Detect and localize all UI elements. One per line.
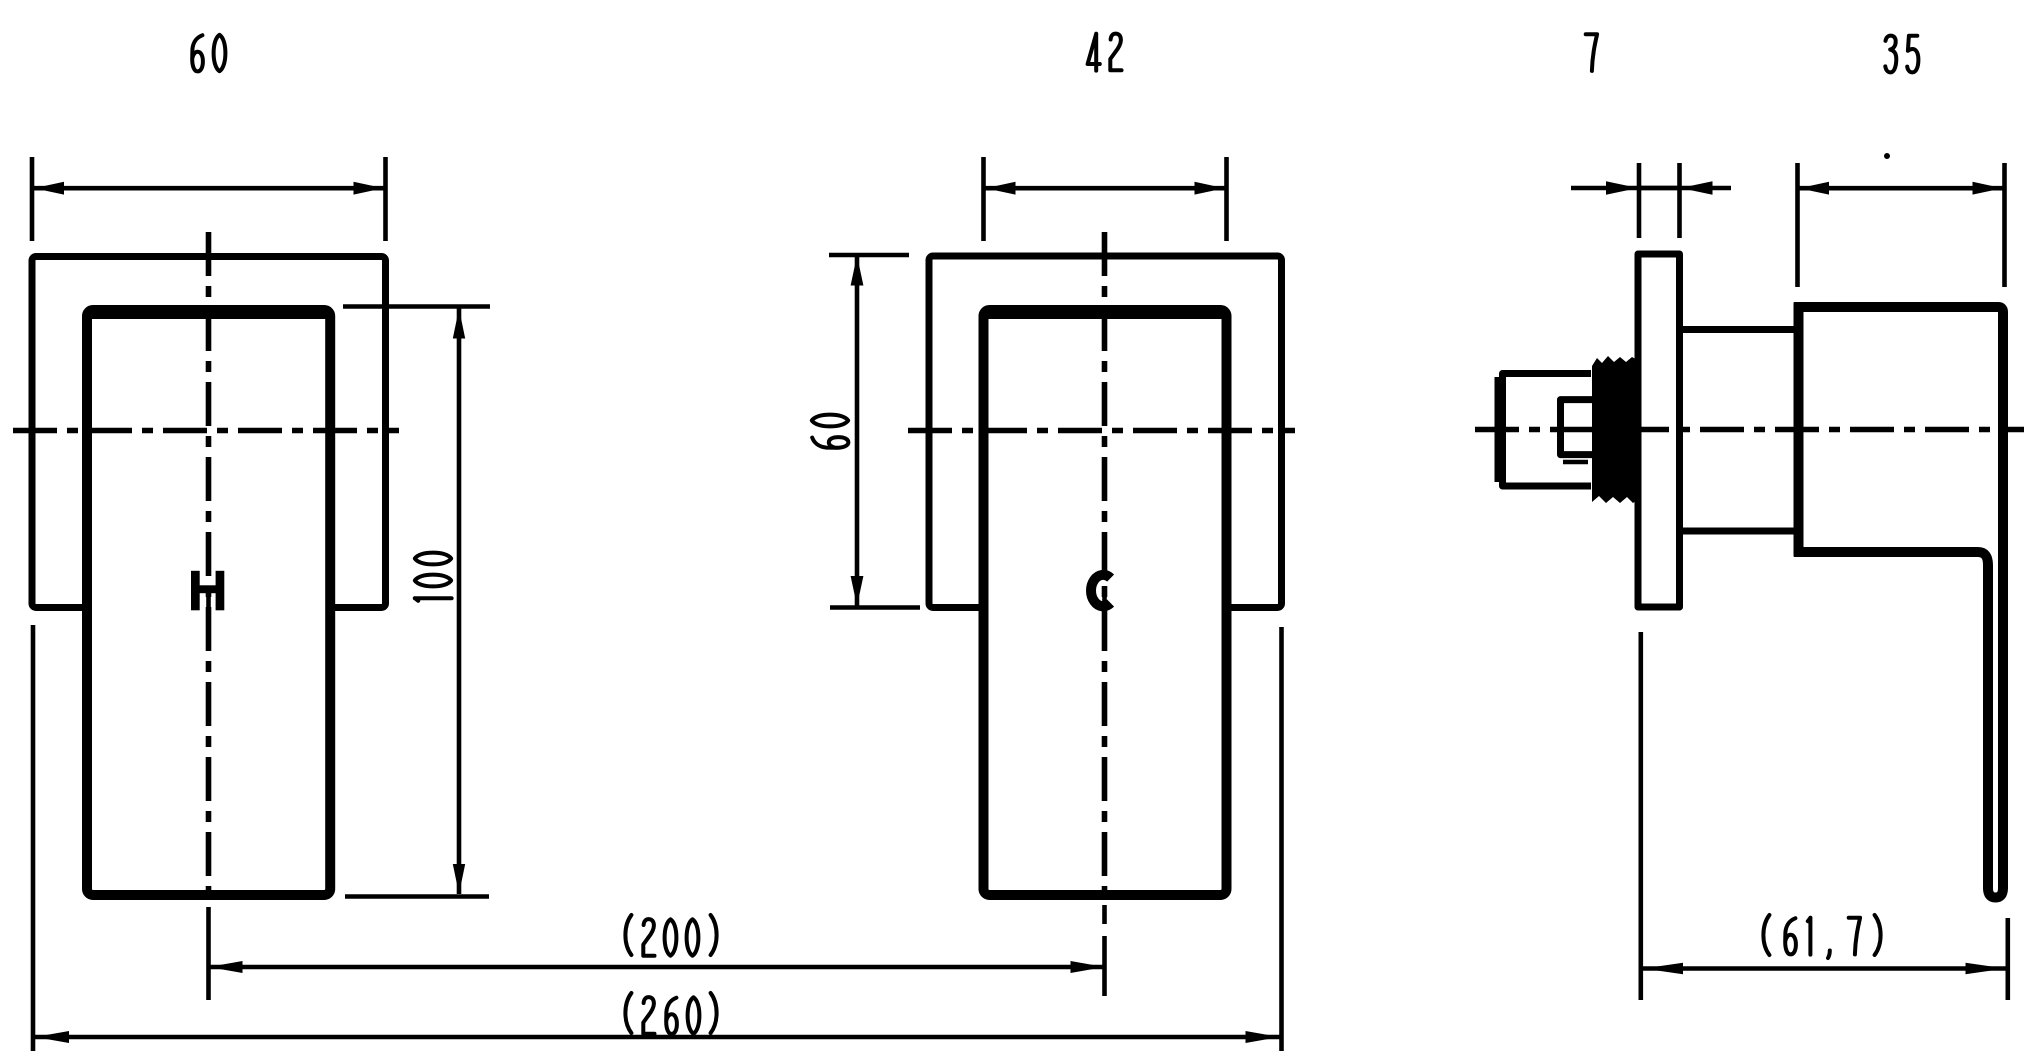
centerline solid segment below C label <box>1102 592 1107 630</box>
handle H top face edge <box>88 312 329 319</box>
dimension 60 (H plate width) <box>32 35 386 241</box>
valve body end cap double line <box>1495 377 1502 482</box>
centerline vertical H <box>206 232 212 893</box>
wall plate (side view) <box>1638 254 1680 607</box>
spindle chamfer line <box>1563 460 1588 465</box>
wall plate C (front view outer square) <box>929 256 1282 608</box>
dimension (260) overall width <box>33 625 1282 1051</box>
centerline solid segment below H label <box>206 592 211 630</box>
dimension 42 (C handle width) <box>984 34 1227 241</box>
wall plate H (front view outer square) <box>32 257 386 608</box>
dimension (200) between handle centers <box>209 915 1105 973</box>
centerline side view <box>1475 427 2024 433</box>
dimension 100 (H handle height) <box>343 307 490 897</box>
dimension 35 (handle body depth) <box>1798 36 2005 287</box>
handle C (front view lever body) <box>984 310 1227 895</box>
handle C top face edge <box>985 312 1226 319</box>
dimension 7 (plate thickness) <box>1571 34 1731 238</box>
spindle square end (small rectangle) <box>1564 403 1592 451</box>
dimension 60 (C plate height) <box>812 255 920 608</box>
threaded spindle (knurled black) <box>1592 356 1639 503</box>
valve body end (left rectangle) <box>1503 374 1592 487</box>
handle body left edge <box>1794 303 1804 557</box>
centerline vertical C <box>1102 232 1108 893</box>
handle H (front view lever body) <box>87 310 330 895</box>
stem between plate and handle body <box>1683 326 1794 333</box>
label C on handle <box>1091 575 1111 606</box>
centerline horizontal H <box>13 428 399 434</box>
centerline horizontal C <box>908 428 1295 434</box>
label H on handle <box>191 571 224 611</box>
handle body and lever (side view) <box>1794 307 2003 898</box>
dimension (61.7) projection <box>1641 632 2008 1000</box>
